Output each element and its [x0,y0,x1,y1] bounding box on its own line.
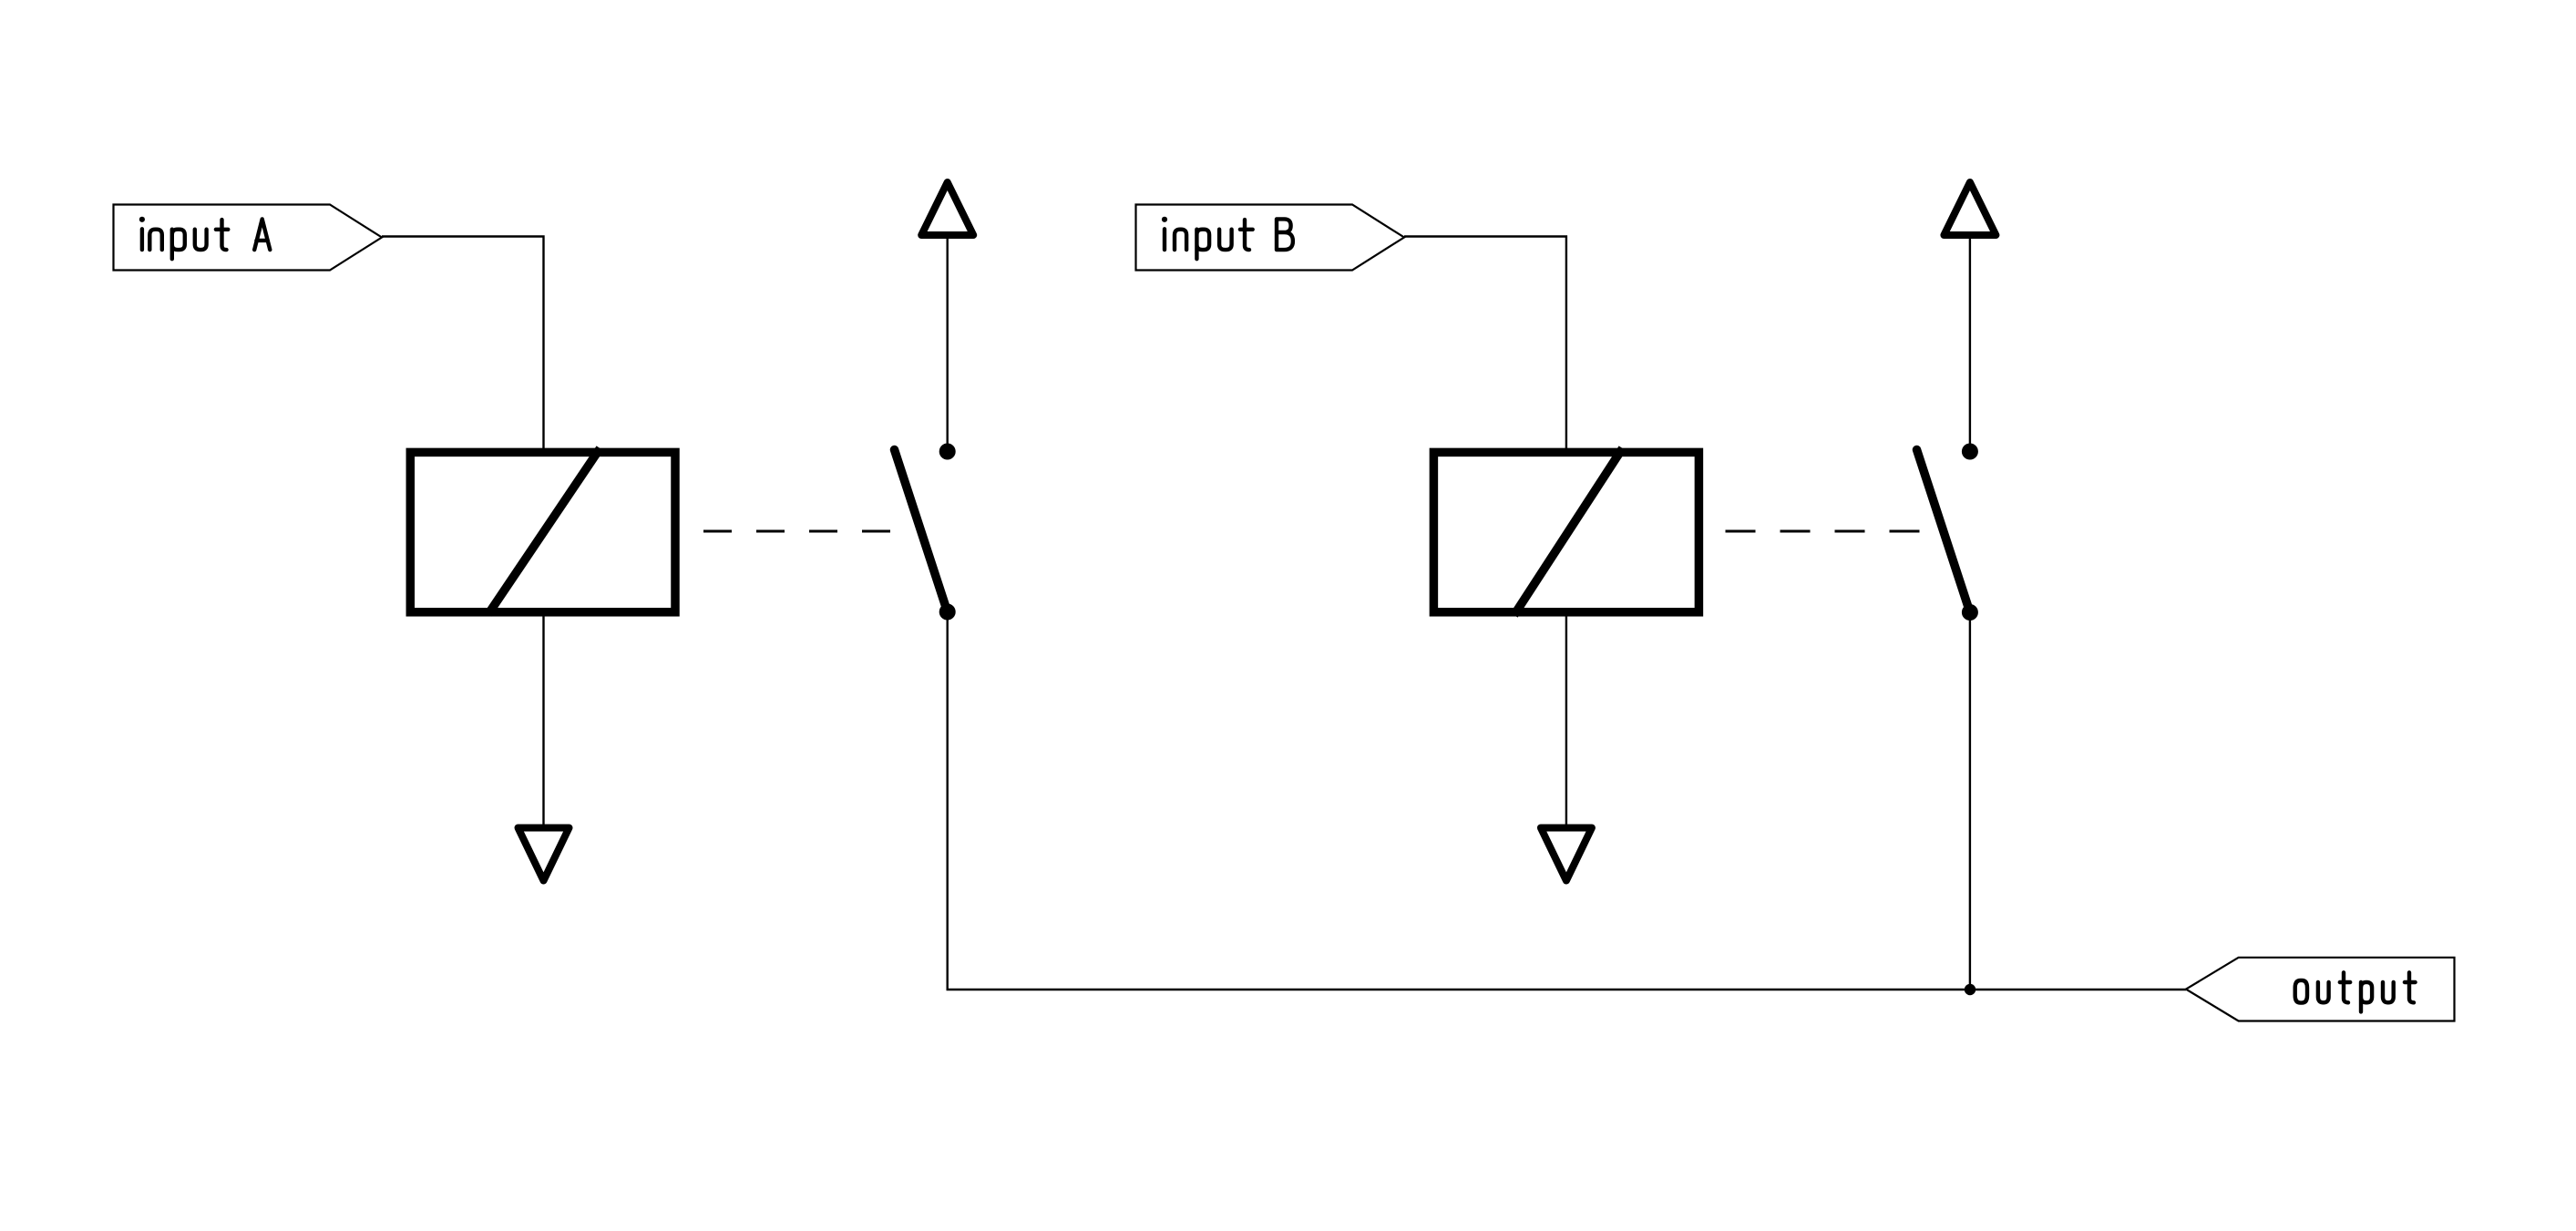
wire S2 down to output bus [1969,612,1971,990]
label text "input A" [142,219,270,259]
wire power to S1 [946,239,948,446]
dashed link K2 to switch S2 [1726,530,1924,533]
coil K1 diagonal stripe [488,448,600,614]
relay coil K2 [1433,448,1699,615]
ground below K2 [1541,828,1592,881]
flag outline input A [114,205,383,271]
wire input A to coil K1 [382,237,544,455]
S2 upper contact dot [1962,444,1978,460]
S2 blade [1917,450,1970,613]
coil K2 diagonal stripe [1514,448,1623,615]
node output flag [2186,958,2455,1021]
label text "output" [2295,972,2416,1011]
switch S1 (relay contact, NO) [895,444,956,621]
S1 blade [895,450,948,612]
power triangle S1 [921,182,973,235]
node input A flag [114,205,383,271]
node input B flag [1136,205,1405,271]
switch S2 (relay contact, NO) [1917,444,1978,621]
wire input B to coil K2 [1404,237,1566,455]
power symbol above S1 [921,182,973,446]
S1 lower contact dot [939,604,956,621]
coil K1 body [410,452,675,611]
S1 upper contact dot [939,444,956,460]
flag outline output [2186,958,2455,1021]
relay coil K1 [410,448,675,614]
label text "input B" [1165,219,1293,259]
power symbol above S2 [1944,182,1996,446]
wire coil K1 to ground [542,612,544,826]
coil K2 body [1433,452,1699,611]
junction on output bus [1965,984,1976,995]
power triangle S2 [1944,182,1996,235]
dashed link K1 to switch S1 [703,530,914,533]
ground below K1 [518,828,570,881]
flag outline input B [1136,205,1405,271]
wire power to S2 [1969,239,1971,446]
S2 lower contact dot [1962,604,1978,621]
wire coil K2 to ground [1565,612,1567,826]
wire S1 down to output bus [948,612,2186,990]
